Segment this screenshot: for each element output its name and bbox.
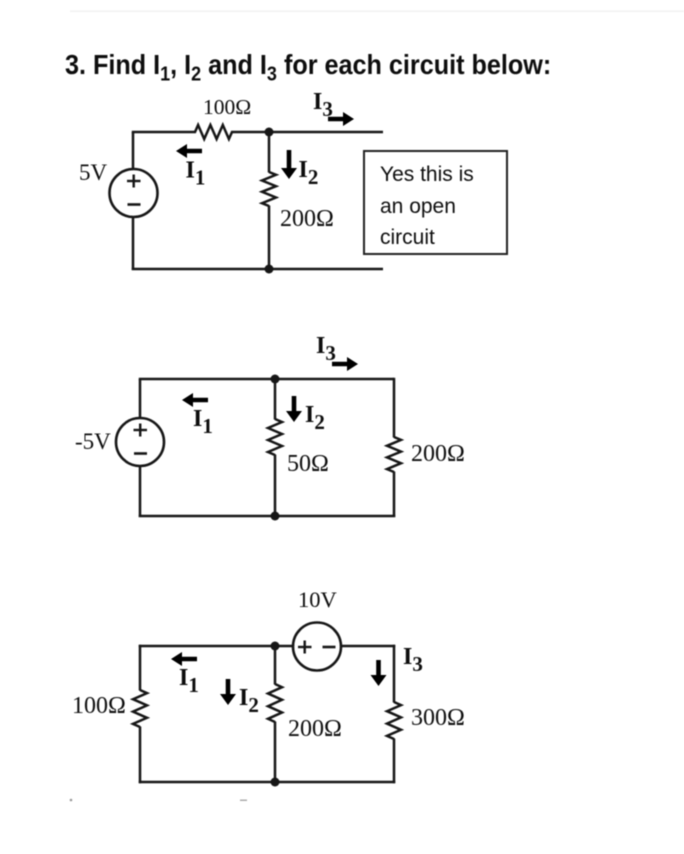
svg-text:-5V: -5V (75, 429, 111, 454)
label I1 (circuit 2) (193, 406, 213, 438)
label I2 (circuit 3) (239, 685, 259, 717)
node A junction dot (top) (265, 128, 274, 137)
label I3 (circuit 2) (316, 333, 336, 365)
wire c3 middle branch lower (274, 722, 277, 783)
svg-text:I1: I1 (186, 158, 206, 190)
scan speck middle (240, 800, 247, 802)
svg-text:3. Find I1, I2 and I3 for each: 3. Find I1, I2 and I3 for each circuit b… (65, 49, 551, 86)
wire c1 top left segment (132, 131, 196, 134)
wire c2 right branch upper (393, 378, 396, 438)
current arrow I2 (circuit 3) (220, 679, 236, 705)
svg-text:I3: I3 (403, 644, 423, 676)
svg-text:5V: 5V (79, 160, 108, 185)
svg-text:200Ω: 200Ω (280, 206, 334, 232)
label 10V (298, 587, 337, 612)
wire c1 top right segment (231, 131, 383, 134)
svg-text:I2: I2 (305, 402, 325, 434)
node D junction dot (bottom) (271, 512, 280, 521)
svg-text:I2: I2 (299, 157, 319, 189)
label 5V (79, 160, 108, 185)
svg-text:I3: I3 (316, 333, 336, 365)
voltage source V1 (5V) (110, 169, 158, 217)
label 100 ohm (203, 95, 251, 119)
resistor R2 200 ohm (vertical) (262, 172, 276, 206)
resistor R7 300 ohm (vertical) (387, 702, 401, 739)
current arrow I3 (328, 112, 354, 126)
label I3 (circuit 3) (403, 644, 423, 676)
svg-text:10V: 10V (298, 587, 337, 612)
resistor R4 200 ohm (vertical) (387, 437, 401, 472)
annotation box: open circuit note (364, 151, 507, 254)
current arrow I1 (176, 144, 202, 158)
resistor R3 50 ohm (vertical) (268, 419, 282, 455)
svg-text:I2: I2 (239, 685, 259, 717)
voltage source V2 (-5V) (116, 418, 164, 466)
resistor R5 100 ohm (vertical) (133, 690, 147, 727)
svg-text:200Ω: 200Ω (411, 441, 465, 467)
scan speck left (70, 799, 73, 802)
wire c1 left lower (132, 217, 135, 271)
wire c3 right branch upper (393, 645, 396, 703)
label I2 (circuit 2) (305, 402, 325, 434)
label 200 ohm (circuit 2) (411, 441, 465, 467)
wire c2 middle branch upper (274, 379, 277, 420)
node F junction dot (bottom) (271, 778, 280, 787)
wire c3 top right segment (341, 645, 395, 648)
wire c2 middle branch lower (274, 455, 277, 517)
node C junction dot (top) (271, 375, 280, 384)
svg-text:I1: I1 (193, 406, 213, 438)
label I2 (299, 157, 319, 189)
svg-text:Yes this is: Yes this is (380, 163, 474, 186)
label 100 ohm (circuit 3) (72, 693, 126, 719)
wire c3 left branch lower (139, 727, 142, 784)
svg-text:100Ω: 100Ω (203, 95, 251, 119)
current arrow I1 (circuit 2) (182, 393, 208, 407)
resistor R6 200 ohm (vertical) (268, 684, 282, 722)
wire c2 right branch lower (393, 472, 396, 518)
svg-text:an open: an open (380, 195, 456, 218)
wire c3 top left segment (139, 645, 293, 648)
wire c1 middle branch upper (268, 132, 271, 173)
wire c3 bottom (139, 781, 395, 784)
wire c2 top (139, 378, 394, 381)
label -5V (75, 429, 111, 454)
label 200 ohm (circuit 3) (288, 716, 342, 742)
wire c2 bottom (139, 515, 395, 518)
wire c2 left upper (139, 379, 142, 419)
current arrow I3 (circuit 2) (332, 357, 358, 371)
current arrow I2 (circuit 2) (286, 396, 302, 422)
svg-text:200Ω: 200Ω (288, 716, 342, 742)
wire c1 left upper (132, 132, 135, 170)
label I3 (313, 89, 333, 121)
svg-text:circuit: circuit (380, 226, 435, 249)
wire c2 left lower (139, 466, 142, 518)
wire c3 left branch upper (139, 645, 142, 691)
label I1 (186, 158, 206, 190)
title: problem statement (65, 49, 551, 86)
voltage source V3 (10V, horizontal) (293, 623, 341, 671)
wire c3 right branch lower (393, 739, 396, 784)
label 50 ohm (287, 451, 329, 477)
current arrow I2 (281, 150, 297, 179)
svg-text:50Ω: 50Ω (287, 451, 329, 477)
svg-text:I3: I3 (313, 89, 333, 121)
svg-text:I1: I1 (179, 665, 199, 697)
wire c1 bottom (132, 268, 383, 271)
label 200 ohm (280, 206, 334, 232)
node B junction dot (bottom) (265, 265, 274, 274)
scan artifact band (faint) (70, 10, 684, 12)
svg-text:100Ω: 100Ω (72, 693, 126, 719)
current arrow I3 (circuit 3, downward) (371, 660, 387, 686)
wire c3 middle branch upper (274, 646, 277, 685)
node E junction dot (top) (271, 642, 280, 651)
current arrow I1 (circuit 3) (171, 652, 197, 666)
svg-text:300Ω: 300Ω (411, 705, 465, 731)
resistor R1 100 ohm (horizontal) (195, 125, 232, 139)
label I1 (circuit 3) (179, 665, 199, 697)
wire c1 middle branch lower (268, 206, 271, 270)
label 300 ohm (411, 705, 465, 731)
